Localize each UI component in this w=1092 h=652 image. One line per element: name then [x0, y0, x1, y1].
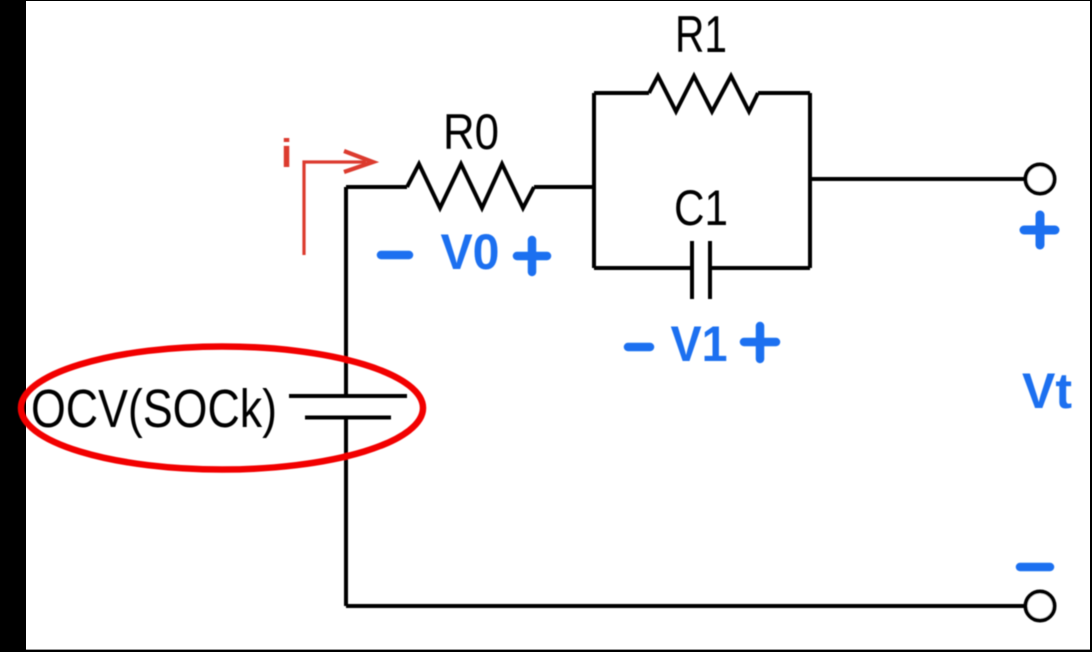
svg-text:R1: R1 [675, 6, 727, 64]
battery OCV bottom plate [305, 416, 391, 420]
wire: parallel block right edge [808, 93, 812, 268]
plus sign at positive terminal [1024, 226, 1055, 235]
svg-text:Vt: Vt [1022, 363, 1072, 419]
resistor R0 [407, 164, 534, 208]
minus sign of V0 [381, 251, 409, 260]
svg-text:V1: V1 [671, 316, 728, 372]
wire: box top-left segment [594, 91, 649, 95]
wire: left vertical upper (node to battery top plate) [344, 187, 348, 396]
svg-text:R0: R0 [443, 104, 499, 160]
plus sign of V0 [517, 252, 547, 261]
wire: R0 to parallel block [534, 185, 594, 189]
capacitor C1 left plate [690, 241, 694, 299]
svg-text:C1: C1 [674, 180, 728, 236]
resistor R1 [649, 76, 758, 112]
minus sign at negative terminal [1020, 563, 1050, 572]
blue annotations [381, 215, 1055, 567]
red ellipse annotation [21, 347, 423, 470]
svg-text:i: i [281, 132, 292, 176]
minus sign of V1 [628, 343, 650, 352]
wire: top node horizontal (left of R0) [346, 185, 407, 189]
wire: box top-right segment [758, 91, 810, 95]
battery OCV top plate [289, 394, 407, 398]
current arrow i [304, 151, 373, 255]
wire: left vertical lower (battery to bottom wire) [344, 418, 348, 607]
plus sign of V1 [744, 338, 776, 347]
wire: box bottom-left segment [594, 266, 692, 270]
terminal circle: negative (bottom right) [1026, 592, 1055, 621]
svg-text:OCV(SOCk): OCV(SOCk) [31, 379, 277, 439]
wire: block to positive terminal [810, 177, 1025, 181]
wire: bottom horizontal [346, 604, 1025, 608]
capacitor C1 right plate [708, 241, 712, 299]
terminal circle: positive (top right) [1026, 165, 1055, 194]
wire: parallel block left edge [592, 93, 596, 268]
svg-text:V0: V0 [441, 224, 500, 280]
wire: box bottom-right segment [710, 266, 810, 270]
